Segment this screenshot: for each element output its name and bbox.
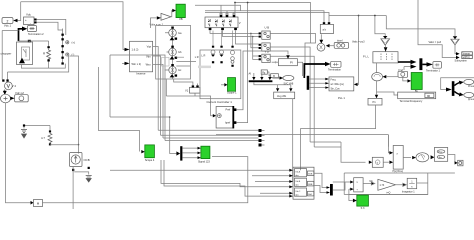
wire timef to circle [330,45,335,47]
wire UB2 out [270,47,310,142]
measurement block AB top ports [323,22,325,24]
wire branch to terminal frequency [377,92,398,95]
ellipse rms [416,153,429,162]
arrowhead into final box [455,161,458,164]
block B [271,74,279,78]
PQ demux bar [452,81,455,96]
junction dot [169,116,171,118]
wire bridge drop b [226,11,228,13]
V1 top ports [192,85,194,87]
block Subsystem tags [462,52,473,59]
source circle bottom [317,43,325,51]
svg-text:Scope 1: Scope 1 [227,91,237,95]
wire UB1 out [270,34,315,75]
source C top port [171,64,174,66]
svg-text:U B: U B [265,26,270,30]
svg-text:Signal 123: Signal 123 [198,160,210,163]
svg-text:Win x 2): Win x 2) [132,62,142,66]
wire y117 bus [110,117,176,154]
svg-text:1.73: 1.73 [380,184,385,187]
wire Vdc out lower [37,22,63,30]
source A bottom port [175,38,178,40]
svg-text:B3B: B3B [308,184,313,186]
arrowhead into Vdc1 [13,19,17,22]
svg-text:chopper: chopper [1,52,12,56]
wire mux to PLL row2 [309,82,325,84]
stubs from inverse wires into sources [165,33,169,70]
wire pu triangle left to discrete PLL [384,45,386,47]
wire bridge phases down to controller [213,31,233,46]
wire bus bottom to AvgdSt triangles [254,82,291,88]
Pref block out ports [234,108,237,111]
wire bridge phase bus upper [210,30,259,33]
svg-text:Vabc = pu3: Vabc = pu3 [352,41,365,44]
wire stub left of V1 bus [165,79,167,96]
measurement V1 [190,87,201,93]
wire y55 horizontal [110,55,165,141]
arrowhead down into pu triangle right [453,36,457,39]
bridge top port circles [220,13,235,15]
wire Rq to B [267,72,270,76]
block Terminator1 [433,62,442,69]
arrowhead into rms ellipse [412,156,416,159]
block Inverse [130,41,153,72]
discrete PLL block dashed [373,52,398,63]
wire gain to scope VB [171,11,173,17]
svg-text:Bu: Bu [415,89,419,93]
block chopper [17,42,33,65]
arrowhead Fref to ellipse [383,75,387,78]
wire into scope3 [349,195,353,201]
block Flag Bm [434,148,447,162]
svg-text:Sin_Cos: Sin_Cos [331,87,341,90]
wire Avg dSt down [292,99,294,182]
wire feedback bottom [349,189,428,194]
pu triangle right [451,39,459,45]
source C bottom port [175,74,178,76]
wire u box to tall block [383,161,389,163]
demux out wires [182,148,197,158]
svg-text:+: + [25,18,27,22]
svg-text:P(u)=Freq: P(u)=Freq [393,170,404,173]
wire phase b top [205,11,324,24]
wire staircase bus 1 [158,129,258,131]
scope signal green [201,146,210,158]
bold arrowhead into demux [176,151,180,155]
right mux bar [419,58,422,70]
DC link port squares [61,34,63,65]
svg-text:Vdc: Vdc [26,13,32,17]
wire bridge drop c [233,12,235,15]
small block right of sources [162,58,170,67]
wire P1 down and left [301,105,376,170]
svg-text:Inverse: Inverse [136,72,146,76]
junction dots on phase buses [250,33,252,35]
DC link left column wire [62,29,64,65]
wire Inverse out Vqn [153,47,159,131]
port squares of Vdc [34,19,36,21]
arrowheads into PLL [325,78,329,89]
svg-text:P L L: P L L [363,54,369,58]
AC source bottom port [72,169,74,171]
wire left mid vertical [109,55,111,117]
svg-text:Freq: Freq [331,79,337,82]
wire phase c top [205,13,329,24]
wire bridge phase c down [236,30,251,44]
controller label bar [198,66,211,69]
arrowhead divide to gain [363,182,375,185]
wire flag to terminator [448,155,456,163]
source B bottom port [175,57,178,59]
tag stubs [262,131,265,146]
block abc-dq0 stack [293,167,314,199]
triangle into bus 1 [252,77,255,80]
chopper top port [28,40,31,42]
arrowhead into u box [369,161,373,164]
triangle down pair into AvgdSt 2 [289,88,292,91]
svg-text:PI: PI [290,61,293,65]
svg-text:4.7: 4.7 [41,136,45,140]
wire staircase bus 4 [165,140,259,142]
bold arrowhead 2 into right mux [411,64,417,68]
arrowheads into pq mux [327,186,331,193]
wire big top loop to Inverse input [21,2,125,50]
thick wire PLL out [398,61,411,63]
wire Vdc out upper [37,19,66,29]
block integrator [407,178,417,188]
block Termination [331,61,341,67]
junction dot [358,15,360,17]
arrowhead into gain [157,16,161,19]
svg-text:Iqref: Iqref [225,120,230,124]
bold arrowhead into flag box [431,155,435,159]
DC link measurement circle plus [66,41,69,56]
arrowhead gain to integrator [396,183,407,186]
svg-text:L R: L R [195,56,199,59]
controller sensor column c [231,46,235,67]
arrowhead Vdcref to sum [10,97,14,100]
arrow ellipse down to P1 [376,81,378,95]
controller sensor column a [211,46,215,64]
controlled source A [169,29,177,37]
svg-text:V: V [239,21,241,25]
port dot [23,124,25,126]
wire right top vertical [418,0,456,58]
arrowhead into scope4 [141,150,145,153]
svg-text:Avg dSt: Avg dSt [277,94,286,98]
wire sum down to bottom bus [6,103,31,203]
bold arrowhead into PQ demux [446,88,452,92]
thick arrow to P oval [454,83,459,86]
controller sensor column b [220,46,224,64]
svg-text:Vd-C: Vd-C [295,191,300,193]
wire into gain [151,18,157,28]
wire discrete PLL down to ellipse [376,63,378,73]
scope4 green [145,145,155,158]
pq mux bar [330,184,333,196]
wire long mid bus [216,135,388,147]
svg-text:Pref: Pref [226,108,231,112]
ground symbol right [86,176,92,183]
triangle into bus 2 [260,77,263,80]
wires from source column to RL [176,57,196,66]
thick wire into Termination2 [19,29,23,41]
block Pref Iqref [216,107,233,129]
arrow up glyph A [170,37,175,40]
wire phase a top [195,5,241,13]
block Termination2 [28,26,37,32]
wire tall block out [403,157,411,159]
svg-text:Flag: Flag [438,151,442,153]
svg-text:1 & 2): 1 & 2) [132,47,139,51]
wire UB3 out [270,56,314,147]
svg-text:Vmeas: Vmeas [463,53,471,55]
svg-text:Vd-B: Vd-B [295,171,300,173]
block Terminal Frequency [398,92,436,99]
arrow up glyph C [170,74,175,77]
arrowhead into M box [31,201,34,205]
measurement V2 ports [2,79,4,81]
wire resistor bottom to rail [50,144,79,147]
oval Q [464,92,474,97]
arrowhead into subsystem row2 [456,56,460,59]
arrowhead into Termination [325,62,331,66]
block final terminator [458,160,463,166]
block P1 [368,98,382,105]
block Rq [261,70,267,74]
current controller subsystem box [200,50,241,99]
display Vdc1 [2,18,13,24]
wire into arrow2 [404,67,411,70]
svg-text:Termination 2: Termination 2 [28,32,44,36]
wire staircase bus 3 [163,137,259,139]
thick right edge of Pref block [232,106,234,128]
svg-text:Vdc 1: Vdc 1 [4,24,12,28]
arrowhead into PLL right side [354,83,358,86]
demux bar [180,146,182,160]
wires into divide [333,182,350,190]
bold arrowhead into SVC VAB [280,76,284,79]
scope2 arrowhead [224,83,227,86]
arrowhead down into pu triangle left [383,36,387,39]
svg-text:B1B: B1B [308,174,313,176]
arrowhead Inverse input1 [125,48,130,51]
arrowhead into scope Bu [407,79,411,82]
wires stack to pq mux [314,173,327,192]
svg-text:V1: V1 [185,89,189,93]
wire left rail from termination area [2,31,18,80]
source A top port [171,27,174,29]
wire AB down to source circle [320,34,322,40]
wire into scope Bu [403,77,408,81]
controlled source C [169,66,176,73]
svg-text:Af: Af [249,72,252,76]
svg-text:S 3: S 3 [361,207,365,209]
scope VB green [176,4,185,17]
gain triangle Volts to pu [161,13,171,20]
svg-text:Subsystem: Subsystem [455,59,467,62]
svg-text:90: 90 [427,94,431,98]
svg-text:Terminator 1: Terminator 1 [426,70,441,73]
wire Inverse out Wxx [153,65,163,139]
wire PLL right input from top [329,16,359,85]
wire V1 to controller [166,93,213,116]
svg-text:Vabc = pu3: Vabc = pu3 [429,41,442,44]
bridge top port squares [220,15,223,17]
wire Fref to ellipse [386,76,398,78]
block M goto [34,200,43,207]
oval P [464,79,474,84]
source B top port [171,46,174,48]
svg-text:timef: timef [337,39,343,42]
block PLL1 [329,77,354,91]
source column wire [172,27,174,79]
bridge interior dark dots [208,21,230,22]
AC voltage source OCB [70,153,83,167]
junction dot [374,15,376,17]
svg-text:a b: a b [323,28,327,32]
discrete powergui loop wire [441,78,474,90]
block u gain small [372,157,383,167]
wire stubs above bus triangles [254,73,270,77]
wire lower-left loop verticals [161,160,290,187]
arrowhead into scope VB [172,9,176,12]
gain triangle 1-3 [378,179,396,190]
wire row feeds right [252,176,293,194]
arrowhead into Pref block [213,114,216,117]
svg-text:Scope 4: Scope 4 [145,158,155,162]
svg-text:Imagrator 1: Imagrator 1 [402,191,415,194]
DC link right column wire [65,29,67,35]
wire from M box right [43,157,248,203]
svg-text:Qmes: Qmes [468,99,474,101]
top row feed wires [310,142,365,162]
wire mux to PLL row1 [309,78,325,80]
wire top feed into tall block [388,135,389,153]
block x divide [354,178,363,192]
wire left loop vertical x98 [99,67,140,152]
svg-text:Vd-B: Vd-B [295,181,300,183]
wire Inverse out Vdn [153,56,161,135]
wire Pref out2 [235,3,311,123]
svg-text:-: - [30,21,31,25]
wire VB2 feeds [251,33,259,59]
svg-text:Terminal Frequency: Terminal Frequency [400,99,423,103]
wire into PI left [272,61,279,63]
mux bar PLL input [307,76,310,90]
svg-text:P1: P1 [373,100,377,104]
svg-text:V 2: V 2 [12,84,17,88]
wire into scope2 [221,84,224,86]
wire into Inverse input2 [122,62,125,64]
ground symbol left-bottom [21,130,27,139]
RC snubber branch wire [24,126,50,131]
wire AC source to ground [74,172,88,175]
pu triangle left [381,39,390,45]
wire chopper bottom bus2 [8,56,69,79]
arrowhead down into discrete PLL [384,47,388,51]
svg-text:L R: L R [201,54,205,58]
arrowhead Inverse input2 [125,62,130,65]
junction dots top bus [234,2,236,4]
three-level bridge block [205,17,238,28]
wire mux to PLL row3 [309,87,325,89]
wire PI out [297,62,302,76]
chopper gate bus [19,41,49,46]
svg-text:Ga: Ga [178,31,182,35]
wire staircase bus 2 [161,134,259,136]
scope2 green [228,78,236,92]
bold arrowhead 1 into right mux [411,60,417,64]
wire Pref out1 [236,51,288,110]
arrowhead into tall block upper [389,151,393,154]
resistor 4.7 top port [49,130,51,132]
sum junction diamond [1,94,11,103]
wire bridge phase bus lower [223,30,259,36]
svg-text:Wxx: Wxx [146,63,152,67]
svg-text:PLL 1: PLL 1 [338,96,345,100]
wire DC link to AC source rail [70,56,79,154]
arrow down into source circle [319,40,323,44]
wire AC source down [72,167,74,210]
resistor R top port [47,46,49,48]
arrowheads into signal scope [198,147,201,159]
ellipse mean freq [372,73,383,81]
triangle into bus 3 [268,77,271,80]
arrowhead into subsystem row1 [456,52,460,55]
thick arrow to Q oval [454,92,459,95]
block AB [320,24,333,33]
goto tag squares [259,129,262,132]
thick wire termination L [304,64,325,78]
arrowhead timef to circle [326,44,330,48]
wire top-left loop to Vdc1 [18,2,21,21]
measurement V2 [4,82,12,90]
svg-text:Vqn: Vqn [147,45,152,49]
thick arrow mux to Terminator1 [422,63,427,65]
svg-text:Gb: Gb [178,50,182,54]
wire lower loop 2 [164,160,290,196]
scope3 green [357,195,369,206]
resistor R bottom port [47,59,49,61]
wire source bottom to V1 [174,79,198,85]
resistor 4.7 bottom port [49,143,51,145]
wire triangle right down to subsystem [455,45,456,54]
svg-text:Pmes: Pmes [468,86,474,88]
wire chopper bottom bus1 [21,62,65,69]
svg-text:Termination: Termination [328,68,342,71]
arrow up glyph B [170,56,175,59]
controlled source B [169,48,177,56]
junction dot [78,144,80,146]
triangle down pair into AvgdSt 1 [276,88,279,91]
block Avg dSt [274,92,295,99]
wire to discrete PLL and right branch [359,16,455,37]
svg-text:(+): (+) [72,40,76,44]
arrowhead down into PI [286,55,290,59]
chopper internal IGBT arrow [19,58,25,64]
oval SVC VAB [283,75,294,80]
block PI [278,59,297,66]
arrowhead Termination2 [22,27,27,32]
arrowhead into scope3 [353,199,357,203]
feedback wire integrator [417,182,428,184]
arrowhead into tall block lower [389,161,393,164]
wire row1 feed [110,169,289,171]
arrowheads into divide [350,181,354,191]
svg-text:OCB: OCB [84,158,90,162]
bridge interior igbt glyphs [208,19,231,27]
